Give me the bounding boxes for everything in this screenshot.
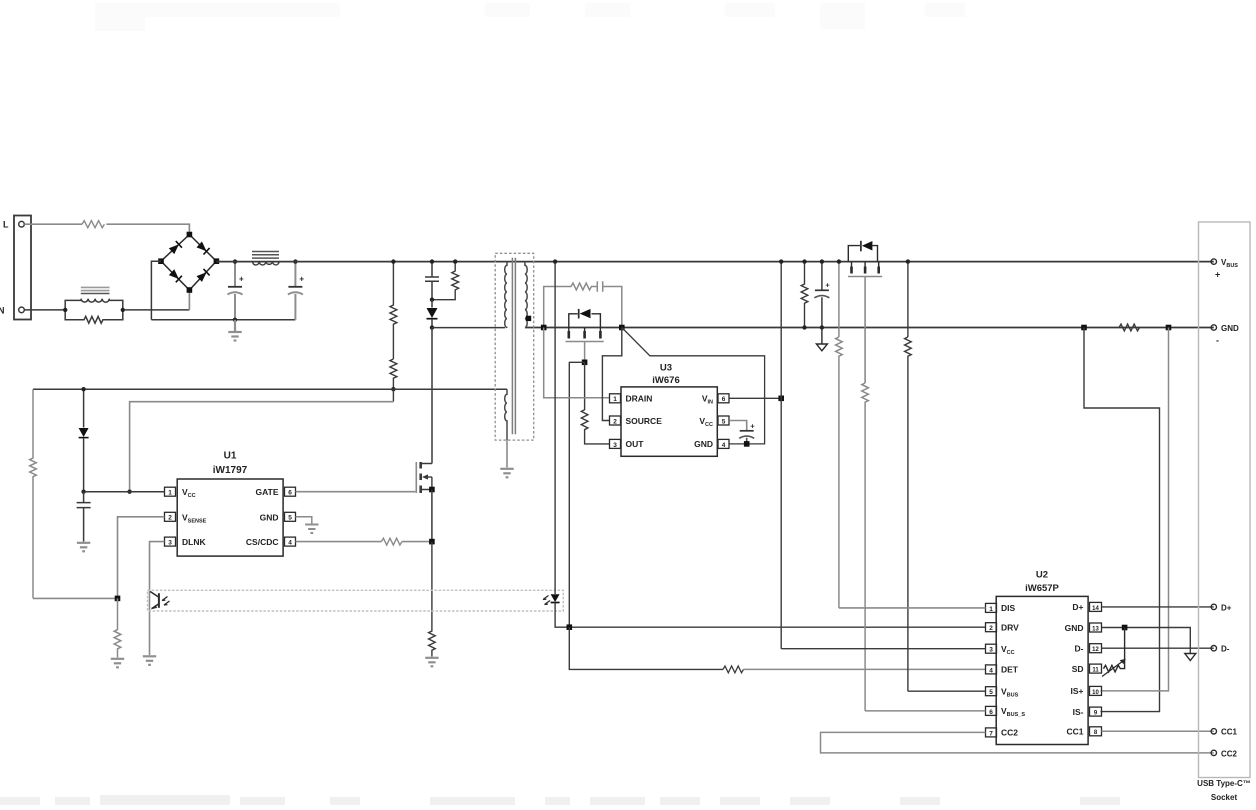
U1 pin 4 CS/CDC bbox=[246, 537, 296, 547]
optocoupler light arrows (receive) bbox=[162, 597, 170, 606]
junction aux to startup diode bbox=[81, 387, 85, 391]
svg-text:3: 3 bbox=[613, 442, 617, 449]
primary bottom rail bbox=[151, 319, 295, 321]
svg-text:6: 6 bbox=[722, 396, 726, 403]
optocoupler OC1 box bbox=[148, 590, 564, 611]
transformer T1 auxiliary winding bbox=[505, 389, 507, 440]
svg-text:iW657P: iW657P bbox=[1025, 583, 1059, 594]
U3 pin 3 OUT bbox=[610, 439, 645, 449]
transformer T1 boundary box bbox=[495, 253, 534, 440]
U3 pin 2 SOURCE bbox=[610, 416, 663, 426]
transformer T1 primary winding bbox=[505, 262, 507, 328]
transformer T1 secondary winding bbox=[525, 262, 527, 328]
svg-text:OUT: OUT bbox=[626, 439, 645, 449]
transformer T1 core bbox=[512, 258, 515, 434]
bridge diode D-c (bottom-left) bbox=[168, 269, 181, 282]
resistor R11 (DET series) bbox=[723, 666, 743, 673]
svg-text:U3: U3 bbox=[660, 363, 672, 374]
junction secondary return / snubber left bbox=[541, 325, 547, 331]
svg-text:12: 12 bbox=[1092, 647, 1099, 653]
junction Vsense node bbox=[115, 596, 121, 602]
wire DET tap bbox=[569, 362, 585, 627]
svg-text:D+: D+ bbox=[1221, 603, 1232, 612]
svg-text:N: N bbox=[0, 306, 5, 316]
U2 pin 8 CC1 bbox=[1066, 727, 1101, 737]
svg-text:IS+: IS+ bbox=[1071, 686, 1084, 696]
wire secondary ground rail bbox=[525, 327, 1214, 329]
wire CC1 to socket bbox=[1102, 730, 1214, 732]
junction C8 top bbox=[820, 259, 824, 263]
junction DIS at VBUS rail bbox=[837, 259, 841, 263]
terminal D- bbox=[1211, 646, 1216, 651]
junction divider top bbox=[391, 259, 395, 263]
primary ground symbol (below C1) bbox=[228, 320, 241, 341]
capacitor C4 (Vcc) bbox=[77, 492, 91, 542]
svg-text:13: 13 bbox=[1092, 626, 1099, 632]
svg-text:D-: D- bbox=[1075, 644, 1084, 654]
wire VBUS to opto LED anode bbox=[554, 262, 556, 594]
wire Vcc feed W2 bbox=[130, 402, 394, 492]
svg-text:4: 4 bbox=[722, 442, 726, 449]
wire VBUS vertical to U2 VCC bbox=[780, 262, 782, 649]
op IC U2 iW657P body bbox=[996, 596, 1088, 744]
U2 pin 7 CC2 bbox=[986, 728, 1019, 738]
bridge diode D-b (top-right) bbox=[196, 241, 209, 254]
U2 pin 11 SD bbox=[1072, 664, 1102, 674]
svg-text:11: 11 bbox=[1092, 668, 1099, 674]
wire Q2 gate to VBUS_S vertical bbox=[864, 277, 866, 383]
startup diode D5 bbox=[83, 389, 85, 427]
wire D- to socket bbox=[1102, 647, 1214, 649]
svg-text:1: 1 bbox=[168, 490, 172, 497]
junction C2 top bbox=[293, 259, 297, 263]
junction IS+ at rail bbox=[1166, 325, 1172, 331]
svg-text:3: 3 bbox=[168, 540, 172, 547]
wire Vcc node to pin 1 bbox=[84, 491, 165, 493]
clamp resistor R4 bbox=[432, 262, 459, 300]
svg-text:U2: U2 bbox=[1036, 570, 1048, 581]
wire Q1 source down to CS node bbox=[431, 490, 433, 542]
wire aux winding W1 bbox=[33, 388, 507, 390]
svg-text:+: + bbox=[825, 281, 830, 290]
U3 pin 1 DRAIN bbox=[610, 394, 653, 404]
svg-text:7: 7 bbox=[989, 730, 993, 737]
fuse F1 bbox=[82, 221, 104, 228]
junction VIN at VBUS vertical bbox=[778, 396, 784, 402]
junction choke right bbox=[121, 308, 125, 312]
U2 pin 14 D+ bbox=[1072, 602, 1101, 612]
U2 pin 13 GND bbox=[1065, 623, 1102, 633]
ground (opto emitter) bbox=[143, 656, 156, 665]
bridge vertex dots bbox=[158, 232, 219, 293]
svg-text:+: + bbox=[239, 275, 244, 284]
svg-text:GND: GND bbox=[1065, 623, 1084, 633]
op IC U1 iW1797 body bbox=[177, 479, 283, 556]
wire Vsense pin 2 bbox=[118, 517, 165, 599]
junction gate / DET tap bbox=[582, 360, 588, 366]
bridge rectifier BR1 frame bbox=[161, 235, 216, 291]
svg-text:iW1797: iW1797 bbox=[213, 465, 248, 476]
capacitor C8 (output) bbox=[814, 262, 830, 328]
wire N input bbox=[24, 309, 63, 311]
startup divider resistor R2 bbox=[390, 359, 397, 389]
svg-text:1: 1 bbox=[989, 606, 993, 613]
svg-text:GND: GND bbox=[260, 512, 279, 522]
transformer secondary polarity dot bbox=[526, 316, 531, 321]
resistor R14 (gate drive series) bbox=[862, 383, 869, 711]
svg-text:L: L bbox=[3, 220, 9, 230]
svg-text:5: 5 bbox=[722, 418, 726, 425]
wire GATE pin 6 to Q1 gate bbox=[296, 491, 416, 493]
svg-text:SOURCE: SOURCE bbox=[626, 416, 663, 426]
bridge diode D-d (bottom-right) bbox=[196, 269, 209, 282]
svg-text:-: - bbox=[1216, 336, 1219, 346]
wire primary winding return (to Q1 drain) bbox=[432, 328, 505, 464]
U1 pin 3 DLNK bbox=[165, 537, 207, 547]
ground (secondary, open triangle) bbox=[816, 328, 827, 351]
svg-text:CC2: CC2 bbox=[1221, 749, 1238, 758]
svg-text:14: 14 bbox=[1092, 606, 1099, 612]
svg-text:CC1: CC1 bbox=[1221, 728, 1238, 737]
resistor R12 (output RC damp) bbox=[801, 262, 808, 328]
svg-text:3: 3 bbox=[989, 647, 993, 654]
svg-text:2: 2 bbox=[989, 625, 993, 632]
capacitor C1 (bulk electrolytic) bbox=[228, 262, 245, 320]
ground (Vsense resistor) bbox=[111, 659, 124, 668]
svg-text:CS/CDC: CS/CDC bbox=[246, 537, 279, 547]
junction C7 to GND wire bbox=[744, 441, 750, 447]
startup divider resistor R1 bbox=[390, 262, 397, 359]
capacitor C7 (U3 Vcc) bbox=[739, 422, 755, 444]
thermistor RT1 (SD pin) bbox=[1104, 628, 1125, 672]
wire aux winding to ground bbox=[506, 440, 508, 467]
U1 pin 5 GND bbox=[260, 512, 296, 522]
optocoupler light arrows (emit) bbox=[543, 596, 550, 605]
junction R12 top bbox=[802, 259, 806, 263]
svg-text:2: 2 bbox=[168, 515, 172, 522]
filter inductor L1 bbox=[252, 252, 279, 259]
junction LED line at VBUS rail bbox=[553, 259, 557, 263]
junction clamp node bbox=[430, 298, 434, 302]
terminal D+ bbox=[1211, 604, 1216, 609]
resistor R8 (current sense shunt) bbox=[429, 542, 436, 657]
ground (Vcc cap) bbox=[77, 543, 90, 552]
junction IS- at rail bbox=[1081, 325, 1087, 331]
svg-text:5: 5 bbox=[288, 515, 292, 522]
junction divider to aux wire bbox=[391, 387, 395, 391]
wire N to bridge bottom bbox=[125, 309, 189, 311]
junction clamp resistor top bbox=[453, 259, 457, 263]
ground (aux winding) bbox=[500, 469, 513, 478]
U1 pin 1 VCC bbox=[165, 487, 196, 499]
resistor R15 (VBUS series) bbox=[905, 337, 912, 691]
svg-text:+: + bbox=[1215, 270, 1220, 280]
wire U3 GND return (diagonal) bbox=[622, 328, 765, 444]
U2 pin 3 VCC bbox=[986, 644, 1015, 656]
snubber capacitor C6 bbox=[597, 281, 622, 327]
svg-text:GND: GND bbox=[1221, 324, 1239, 333]
svg-text:DIS: DIS bbox=[1001, 603, 1016, 613]
wire sync FET source to U3 SOURCE bbox=[602, 328, 621, 421]
junction C8 bottom bbox=[820, 325, 824, 329]
wire DLNK pin 3 to optocoupler bbox=[150, 542, 165, 655]
junction Vcc feed at pin wire bbox=[127, 490, 131, 494]
svg-text:+: + bbox=[750, 422, 755, 431]
wire DET net lower bbox=[569, 627, 723, 669]
ground (D- shield, open triangle) bbox=[1185, 654, 1196, 661]
U2 pin 6 VBUS_S bbox=[986, 706, 1026, 718]
wire Q3 gate lead bbox=[584, 342, 586, 362]
wire DIS vertical bbox=[838, 262, 840, 337]
wire CS/CDC pin 4 bbox=[296, 541, 382, 543]
junction C1 top bbox=[233, 259, 237, 263]
svg-text:6: 6 bbox=[288, 490, 292, 497]
svg-text:GATE: GATE bbox=[256, 487, 279, 497]
wire U3 VCC pin 5 bbox=[729, 421, 747, 431]
U3 pin 4 GND bbox=[694, 439, 729, 449]
wire LED cathode to DRV bbox=[555, 603, 985, 628]
transistor Q2 channel and gate bbox=[848, 262, 882, 277]
transistor Q3 channel and gate bbox=[566, 328, 604, 342]
svg-text:SD: SD bbox=[1072, 664, 1084, 674]
wire VCC vertical to pin 3 bbox=[781, 648, 985, 650]
wire GND pin 13 bbox=[1102, 628, 1191, 654]
wire L to bridge top bbox=[106, 224, 189, 231]
terminal CC1 bbox=[1211, 729, 1216, 734]
bridge diode D-a (top-left) bbox=[168, 241, 181, 254]
svg-text:4: 4 bbox=[989, 667, 993, 674]
resistor R3 (left sense rail upper) bbox=[30, 389, 37, 598]
svg-text:DLNK: DLNK bbox=[182, 537, 206, 547]
U2 pin 5 VBUS bbox=[986, 687, 1019, 699]
wire secondary return to U3 DRAIN bbox=[544, 328, 610, 398]
junction VBUS sense at rail bbox=[906, 259, 910, 263]
junction R12 bottom bbox=[802, 325, 806, 329]
wire VBUS_S vertical to pin 6 bbox=[865, 710, 985, 712]
junction GND / SD tap bbox=[1122, 625, 1128, 631]
resistor R16 (GND current sense) bbox=[1119, 324, 1140, 331]
svg-text:GND: GND bbox=[694, 439, 713, 449]
svg-text:4: 4 bbox=[288, 540, 292, 547]
wire D+ to socket bbox=[1102, 606, 1214, 608]
svg-text:USB Type-C™: USB Type-C™ bbox=[1197, 779, 1251, 788]
junction CS node bbox=[429, 539, 435, 545]
U2 pin 12 D- bbox=[1075, 644, 1102, 654]
wire IS+ sense path bbox=[1101, 328, 1169, 691]
U1 pin 6 GATE bbox=[256, 487, 296, 497]
clamp diode D2 bbox=[431, 300, 433, 308]
resistor R6 (Vsense lower) bbox=[114, 598, 121, 657]
U2 pin 10 IS+ bbox=[1071, 686, 1102, 696]
svg-text:+: + bbox=[299, 275, 304, 284]
junction DET vertical at DRV wire bbox=[567, 624, 573, 630]
wire top DC / VBUS rail bbox=[216, 261, 1213, 263]
clamp capacitor C3 bbox=[425, 262, 439, 300]
U3 pin 5 VCC bbox=[699, 416, 729, 428]
transistor Q2 (VBUS load switch) body diode bbox=[848, 241, 877, 262]
U1 pin 2 VSENSE bbox=[165, 512, 207, 524]
terminal GND bbox=[1211, 325, 1216, 330]
wire bridge minus to bottom rail bbox=[151, 261, 161, 320]
wire CC2 loop pin 7 bbox=[821, 732, 1214, 753]
svg-text:1: 1 bbox=[613, 396, 617, 403]
wire divider to Vcc feed bbox=[392, 389, 394, 402]
wire IS- sense path bbox=[1084, 328, 1160, 712]
svg-text:5: 5 bbox=[989, 689, 993, 696]
junction C1 bottom bbox=[233, 318, 237, 322]
junction clamp cap top bbox=[430, 259, 434, 263]
U2 pin 9 IS- bbox=[1073, 707, 1102, 717]
junction VBUS rail at x781 bbox=[779, 259, 783, 263]
snubber resistor R9 bbox=[544, 283, 598, 327]
common-mode choke CM1 core bbox=[81, 287, 110, 290]
junction Q1 source bbox=[429, 487, 435, 493]
svg-text:CC2: CC2 bbox=[1001, 728, 1018, 738]
junction choke left bbox=[63, 308, 67, 312]
common-mode choke CM1 winding bbox=[65, 299, 123, 310]
svg-text:6: 6 bbox=[989, 709, 993, 716]
svg-text:D+: D+ bbox=[1072, 602, 1083, 612]
op IC U3 iW676 body bbox=[621, 387, 717, 456]
svg-text:Socket: Socket bbox=[1211, 793, 1238, 802]
junction clamp diode to primary return bbox=[430, 325, 434, 329]
svg-text:DET: DET bbox=[1001, 665, 1019, 675]
U2 pin 1 DIS bbox=[986, 603, 1016, 613]
svg-text:CC1: CC1 bbox=[1066, 727, 1083, 737]
svg-text:DRV: DRV bbox=[1001, 623, 1019, 633]
svg-text:10: 10 bbox=[1092, 690, 1099, 696]
optocoupler phototransistor bbox=[150, 592, 159, 609]
svg-text:DRAIN: DRAIN bbox=[626, 394, 653, 404]
resistor R13 (DIS bleed) bbox=[836, 337, 843, 608]
wire VBUS sense vertical bbox=[907, 262, 909, 337]
USB Type-C socket outline bbox=[1199, 222, 1251, 778]
ground (CS shunt) bbox=[425, 658, 438, 667]
transistor Q3 (sync rectifier MOSFET) body diode bbox=[569, 309, 601, 328]
wire DET resistor to pin 4 bbox=[744, 668, 986, 670]
terminal VBUS bbox=[1211, 259, 1216, 264]
junction sync FET source / snubber right bbox=[619, 325, 625, 331]
wire U3 VIN pin 6 to VBUS net bbox=[729, 397, 781, 399]
svg-text:IS-: IS- bbox=[1073, 707, 1084, 717]
resistor R10 (gate series, to OUT) bbox=[581, 362, 609, 444]
svg-text:iW676: iW676 bbox=[652, 375, 679, 386]
wire DIS resistor to pin 1 bbox=[839, 607, 986, 609]
svg-text:U1: U1 bbox=[224, 451, 237, 462]
resistor R-CM (parallel damping) bbox=[65, 310, 123, 323]
U3 pin 6 VIN bbox=[702, 394, 729, 406]
U2 pin 4 DET bbox=[986, 665, 1019, 675]
terminal CC2 bbox=[1211, 750, 1216, 755]
svg-text:D-: D- bbox=[1221, 645, 1230, 654]
capacitor C2 (bulk electrolytic) bbox=[288, 262, 305, 320]
wire VBUS vertical to pin 5 bbox=[908, 690, 986, 692]
ground (U1 GND pin 5) bbox=[296, 517, 312, 524]
optocoupler LED D4 bbox=[551, 594, 560, 602]
wire left rail to Vsense node bbox=[33, 597, 118, 599]
resistor R7 (CS) bbox=[381, 538, 401, 545]
wire L input bbox=[24, 223, 82, 225]
junction Vcc node bbox=[81, 490, 85, 494]
U2 pin 2 DRV bbox=[986, 623, 1020, 633]
svg-text:2: 2 bbox=[613, 418, 617, 425]
transistor Q1 (primary MOSFET) bbox=[416, 462, 432, 493]
AC input terminal block J1 bbox=[14, 216, 31, 320]
